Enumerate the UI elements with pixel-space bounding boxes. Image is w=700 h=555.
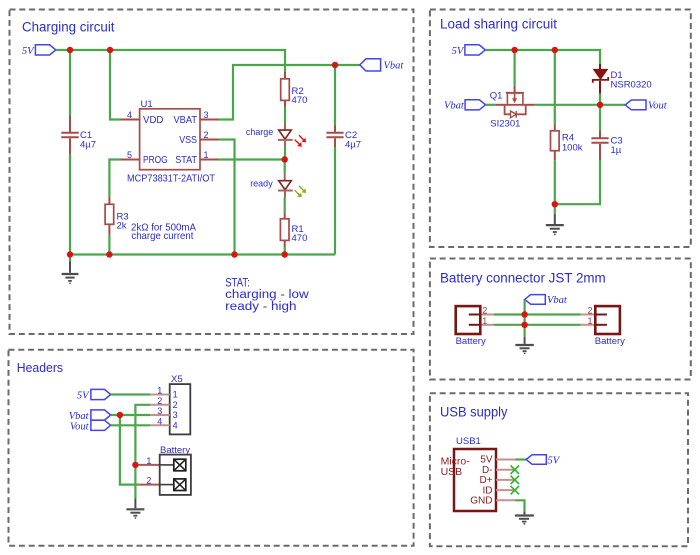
svg-text:charge: charge — [246, 127, 273, 138]
svg-text:MCP73831T-2ATI/OT: MCP73831T-2ATI/OT — [127, 174, 215, 185]
ground (battery connector) — [515, 325, 533, 354]
wire Vbat to Q1 — [486, 104, 496, 106]
wire C3 top — [599, 105, 601, 131]
net label Vout — [625, 100, 668, 112]
net label 5V (charging) — [22, 45, 56, 57]
svg-text:5: 5 — [127, 150, 132, 160]
node junction 5V/R4 — [552, 47, 558, 53]
node junction 5V/gate — [511, 47, 517, 53]
wire C1 bottom — [69, 154, 71, 255]
wire Q1 to Vout — [535, 104, 625, 106]
pin lead USB GND — [496, 499, 515, 501]
pin lead USB D- — [496, 469, 515, 471]
net label 5V (load sharing) — [452, 45, 486, 57]
svg-text:3: 3 — [157, 406, 162, 416]
svg-text:charge current: charge current — [131, 230, 193, 242]
pin 2 stub VSS — [200, 139, 219, 141]
svg-text:100k: 100k — [562, 143, 583, 154]
resistor R2 — [281, 72, 308, 107]
pin lead right JST pin2 — [581, 314, 594, 316]
svg-text:VDD: VDD — [143, 115, 163, 126]
node junction rail/R1 — [282, 251, 288, 257]
svg-text:1: 1 — [204, 150, 209, 160]
wire X5 pin2 down to ground — [135, 405, 150, 499]
resistor R1 — [280, 212, 307, 247]
node junction rail/C1 — [67, 251, 73, 257]
svg-text:Load sharing circuit: Load sharing circuit — [440, 17, 557, 32]
no-connect X on D- — [511, 466, 519, 474]
svg-text:2: 2 — [146, 476, 151, 486]
pin lead USB 5V — [496, 459, 515, 461]
node junction 5V/C1 — [67, 47, 73, 53]
svg-text:1: 1 — [173, 390, 178, 400]
svg-text:5V: 5V — [77, 391, 90, 402]
svg-text:STAT: STAT — [175, 155, 197, 166]
svg-text:1: 1 — [146, 456, 151, 466]
wire gate branch — [513, 50, 515, 86]
svg-text:1µ: 1µ — [611, 145, 622, 156]
svg-text:4µ7: 4µ7 — [80, 140, 96, 151]
capacitor C2 — [326, 126, 361, 151]
op-amp U1 MCP73831 body — [127, 99, 215, 185]
node junction Vbat/C2 — [332, 62, 338, 68]
capacitor C3 — [591, 131, 622, 160]
svg-text:Vout: Vout — [70, 421, 90, 432]
svg-text:470: 470 — [292, 95, 308, 106]
wire PROG to R3 — [109, 160, 120, 198]
pin 4 stub VDD — [121, 119, 140, 121]
svg-text:Q1: Q1 — [490, 91, 503, 102]
transistor Q1 SI2301 — [490, 86, 535, 130]
svg-text:VBAT: VBAT — [174, 115, 198, 126]
ground (load sharing) — [546, 204, 564, 234]
svg-text:4: 4 — [127, 110, 132, 120]
svg-text:2: 2 — [587, 306, 592, 316]
net label 5V (USB) — [526, 455, 561, 467]
node junction 5V/VDD — [107, 47, 113, 53]
node junction Vbat branch — [117, 412, 123, 418]
wire R1 bottom — [284, 247, 286, 255]
wire Vout to X5 pin4 — [111, 424, 151, 426]
wire VDD branch — [110, 50, 121, 120]
svg-text:4: 4 — [157, 416, 162, 426]
svg-text:5V: 5V — [22, 46, 35, 57]
svg-text:470: 470 — [292, 233, 308, 244]
node junction battery pin1 — [132, 462, 138, 468]
svg-text:Headers: Headers — [17, 360, 64, 375]
wire C2 bottom — [334, 147, 336, 255]
node junction rail/R3 — [106, 251, 112, 257]
pin lead right JST pin1 — [581, 324, 594, 326]
wire node to battery pin1 lead — [135, 464, 138, 466]
node junction ground (load sharing) — [552, 201, 558, 207]
node junction STAT/LEDs — [282, 156, 288, 162]
resistor R3 — [105, 198, 129, 235]
wire gnd net (bottom) — [494, 324, 581, 326]
wire STAT to LEDs — [219, 158, 285, 160]
wire C3 bottom to ground node — [555, 160, 600, 204]
pin lead USB D+ — [496, 479, 515, 481]
svg-text:5V: 5V — [452, 46, 465, 57]
svg-text:Battery: Battery — [456, 336, 486, 347]
wire LED charge to node — [284, 147, 286, 160]
wire USB GND to ground — [515, 500, 524, 511]
capacitor C1 — [61, 116, 96, 155]
no-connect X on ID — [511, 486, 519, 494]
svg-text:1: 1 — [157, 386, 162, 396]
pin lead X5 pin3 — [150, 414, 169, 416]
section frame: Charging circuit — [10, 10, 414, 335]
no-connect X on D+ — [511, 476, 519, 484]
wire Vbat net (top) — [494, 313, 581, 315]
node junction rail/VSS — [231, 251, 237, 257]
wire 5V to X5 pin1 — [111, 393, 151, 395]
svg-text:VSS: VSS — [179, 135, 197, 146]
svg-text:USB supply: USB supply — [440, 405, 508, 420]
svg-text:Battery connector JST 2mm: Battery connector JST 2mm — [440, 271, 606, 286]
LED charge — [278, 123, 306, 147]
net label Vout (headers) — [70, 420, 111, 432]
svg-text:4µ7: 4µ7 — [345, 140, 361, 151]
svg-text:U1: U1 — [141, 99, 153, 110]
pin 5 stub PROG — [121, 159, 140, 161]
svg-text:Vbat: Vbat — [384, 61, 405, 72]
section frame: USB supply — [430, 393, 688, 546]
wire Vbat flag down — [523, 299, 525, 324]
resistor R4 — [551, 125, 583, 161]
svg-text:2k: 2k — [117, 220, 127, 231]
node junction gnd wire — [521, 322, 527, 328]
note text 2k ohm — [131, 221, 196, 242]
svg-text:5V: 5V — [548, 456, 561, 467]
svg-text:USB1: USB1 — [456, 436, 481, 447]
note text STAT — [225, 277, 309, 312]
connector USB1 Micro-USB body — [441, 436, 496, 511]
node junction Vout — [597, 102, 603, 108]
svg-text:USB: USB — [441, 466, 463, 478]
net label Vbat (load sharing) — [444, 100, 486, 112]
svg-text:STAT:: STAT: — [225, 277, 250, 289]
section frame: Headers — [9, 350, 414, 546]
ground (USB) — [515, 511, 534, 524]
wire Vbat branch down to battery pin2 — [120, 415, 139, 485]
connector JST right (Battery) — [594, 306, 625, 347]
svg-text:NSR0320: NSR0320 — [611, 80, 652, 91]
wire C2 top — [334, 65, 336, 126]
wire VBAT to Vbat flag — [219, 65, 360, 120]
pin 3 stub VBAT — [200, 119, 219, 121]
pin lead X5 pin2 — [150, 404, 169, 406]
wire node to LED ready — [284, 160, 286, 174]
svg-text:ready - high: ready - high — [225, 301, 296, 313]
pin lead battery pin2 — [139, 484, 160, 486]
wire R2 to LED charge — [284, 107, 286, 123]
pin lead left JST pin1 — [482, 324, 494, 326]
svg-text:Vbat: Vbat — [547, 295, 568, 306]
svg-text:2: 2 — [173, 400, 178, 410]
wire R4 bottom — [554, 160, 556, 204]
wire 5V rail (load sharing) — [485, 50, 600, 64]
wire C1 top — [69, 50, 71, 116]
wire VSS to ground rail — [219, 140, 235, 255]
svg-text:3: 3 — [173, 410, 178, 420]
ground (charging) — [62, 255, 79, 284]
wire D1 to Vout node — [599, 94, 601, 105]
node junction Vbat wire — [521, 311, 527, 317]
svg-text:charging - low: charging - low — [225, 289, 309, 301]
wire ground rail — [70, 253, 335, 255]
svg-text:Vout: Vout — [648, 101, 668, 112]
pin lead USB ID — [496, 489, 515, 491]
pin 1 stub STAT — [200, 159, 219, 161]
pin lead X5 pin4 — [150, 424, 169, 426]
section frame: Battery connector JST 2mm — [430, 259, 691, 380]
wire LED ready to R1 — [284, 198, 286, 213]
svg-text:PROG: PROG — [143, 155, 168, 166]
net label Vbat (headers) — [69, 410, 111, 422]
wire R3 bottom — [108, 235, 110, 255]
net label 5V (headers) — [77, 389, 111, 401]
net label Vbat (battery connector) — [525, 295, 568, 306]
wire Vbat to X5 pin3 — [111, 414, 151, 416]
svg-text:3: 3 — [204, 110, 209, 120]
pin lead left JST pin2 — [482, 314, 494, 316]
ground (headers) — [126, 499, 144, 519]
svg-text:Charging circuit: Charging circuit — [22, 20, 115, 35]
connector JST left (Battery) — [456, 306, 486, 347]
header Battery body — [160, 445, 191, 495]
svg-text:SI2301: SI2301 — [490, 119, 520, 130]
diode D1 NSR0320 — [593, 64, 652, 94]
wire USB 5V to flag — [515, 458, 526, 460]
wire R4 branch — [554, 50, 556, 125]
net label Vbat (charging) — [360, 59, 405, 72]
svg-text:ready: ready — [250, 179, 273, 190]
svg-text:Battery: Battery — [595, 336, 625, 347]
pin lead battery pin1 — [139, 464, 160, 466]
LED ready — [278, 174, 306, 198]
svg-text:2: 2 — [204, 130, 209, 140]
svg-text:1: 1 — [587, 316, 592, 326]
svg-text:4: 4 — [173, 420, 178, 430]
svg-text:2: 2 — [157, 396, 162, 406]
svg-text:GND: GND — [470, 496, 492, 507]
header X5 body — [170, 374, 191, 434]
section frame: Load sharing circuit — [430, 10, 691, 248]
pin lead X5 pin1 — [150, 394, 169, 396]
wire 5V rail — [56, 50, 285, 72]
svg-text:Vbat: Vbat — [444, 101, 465, 112]
